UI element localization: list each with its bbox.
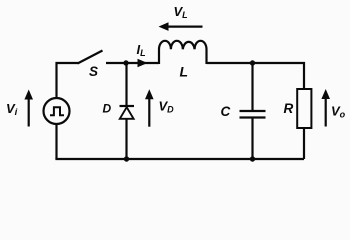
wire capacitor branch lower [251, 119, 253, 160]
capacitor C plates [240, 111, 266, 118]
svg-text:C: C [221, 104, 231, 119]
voltage source Vi circle [44, 98, 70, 124]
svg-text:Vi: Vi [6, 101, 18, 118]
node junction dot bottom diode [124, 156, 129, 161]
wire resistor to bottom rail [303, 128, 305, 159]
current arrow IL head [138, 59, 148, 68]
svg-text:R: R [284, 101, 294, 116]
node junction dot bottom capacitor [250, 156, 255, 161]
voltage arrow Vi [24, 90, 33, 127]
svg-text:VL: VL [174, 4, 188, 20]
wire diode branch lower [125, 119, 127, 159]
wire diode branch upper [125, 63, 127, 106]
svg-text:S: S [89, 64, 98, 79]
inductor L [159, 41, 207, 64]
voltage arrow Vo [321, 89, 330, 127]
node A junction dot (switch node) [123, 60, 128, 65]
voltage arrow VL [159, 22, 203, 31]
svg-text:IL: IL [137, 42, 146, 58]
pulse symbol inside source [50, 107, 64, 115]
wire inductor to right corner and down to resistor [207, 63, 305, 89]
node junction dot top capacitor [250, 60, 255, 65]
wire node A to inductor [126, 62, 159, 64]
svg-text:L: L [180, 64, 189, 80]
diode D [120, 106, 135, 119]
svg-text:D: D [103, 102, 112, 116]
wire source bottom to bottom rail [55, 124, 57, 159]
wire capacitor branch upper [251, 63, 253, 110]
switch S blade [78, 51, 103, 64]
wire top-left horizontal from source branch to switch pivot [57, 63, 79, 98]
bottom rail wire [55, 158, 304, 160]
voltage arrow VD [145, 89, 154, 126]
svg-text:VD: VD [159, 99, 175, 115]
svg-text:Vo: Vo [331, 104, 346, 120]
resistor R body [297, 89, 311, 128]
wire switch contact to node A [106, 62, 128, 64]
